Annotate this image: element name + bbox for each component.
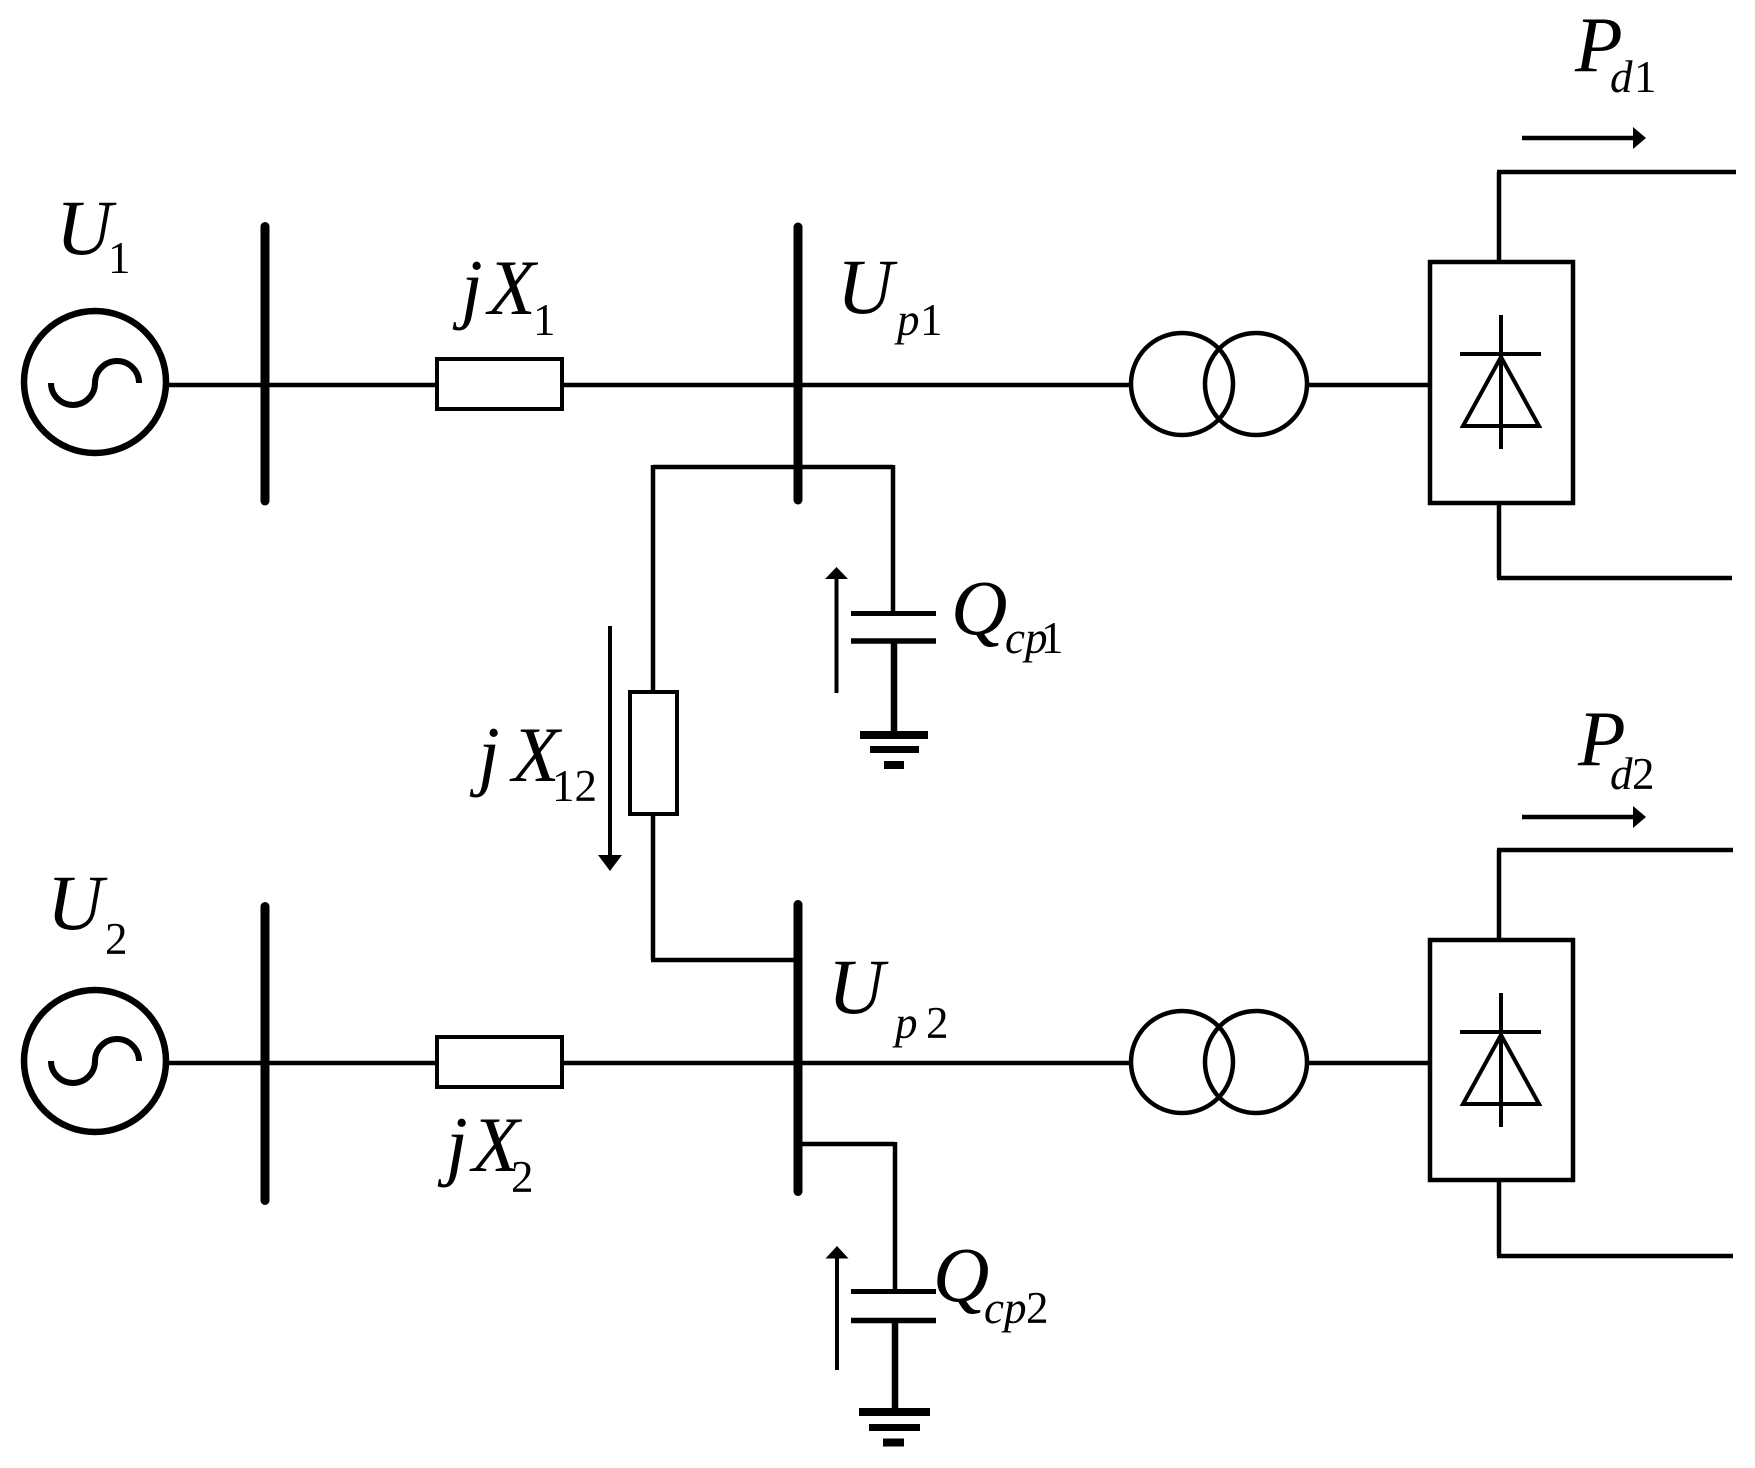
svg-text:Q: Q: [933, 1231, 989, 1318]
svg-text:2: 2: [1026, 1283, 1049, 1333]
svg-text:cp: cp: [984, 1283, 1026, 1333]
svg-text:U: U: [837, 243, 898, 330]
svg-text:1: 1: [533, 295, 556, 345]
svg-text:X: X: [485, 244, 539, 331]
svg-text:U: U: [47, 859, 108, 946]
svg-text:2: 2: [926, 998, 949, 1048]
svg-text:1: 1: [1041, 613, 1064, 663]
svg-text:12: 12: [552, 761, 597, 811]
svg-text:1: 1: [108, 233, 131, 283]
svg-text:Q: Q: [951, 564, 1007, 651]
svg-text:1: 1: [1634, 52, 1657, 102]
svg-text:U: U: [828, 943, 889, 1030]
svg-text:p: p: [894, 295, 920, 345]
svg-text:2: 2: [511, 1152, 534, 1202]
svg-text:d: d: [1610, 749, 1633, 799]
svg-text:2: 2: [105, 914, 128, 964]
svg-text:p: p: [892, 998, 918, 1048]
svg-text:d: d: [1610, 52, 1633, 102]
svg-text:1: 1: [920, 295, 943, 345]
svg-text:2: 2: [1632, 749, 1655, 799]
